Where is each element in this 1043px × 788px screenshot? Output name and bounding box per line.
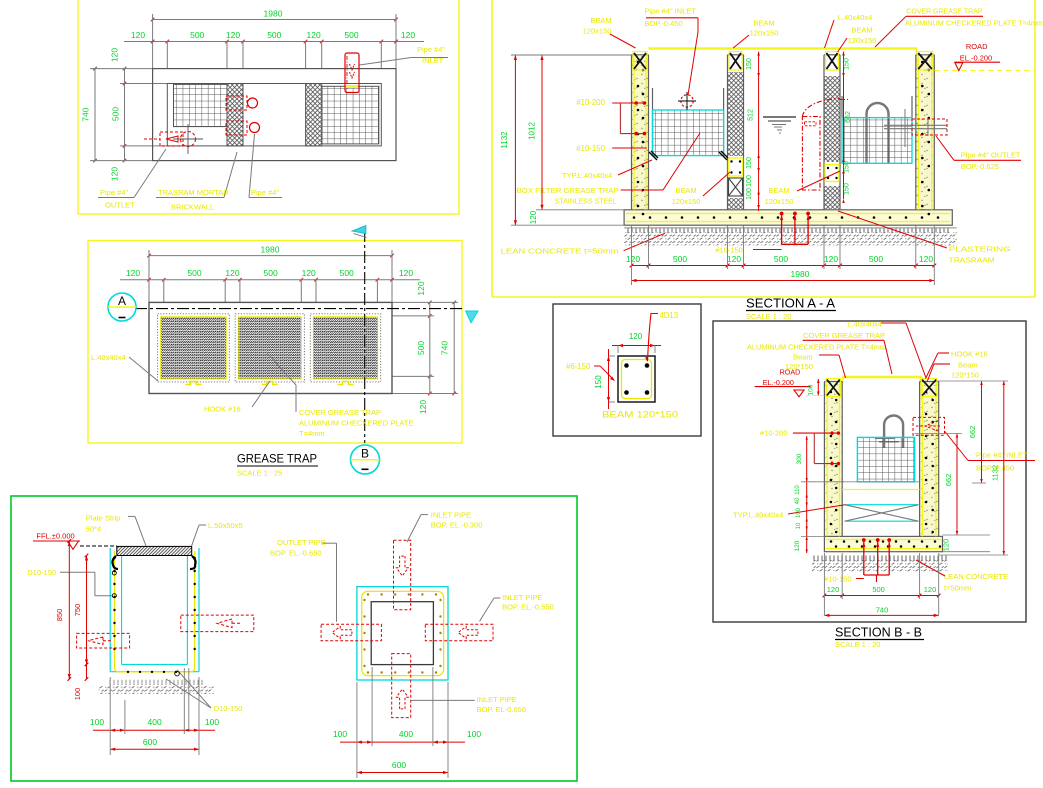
svg-text:#10-150: #10-150 (824, 575, 852, 584)
pit plan pipe top (394, 540, 411, 610)
svg-text:LEAN CONCRETE t=50mm: LEAN CONCRETE t=50mm (501, 247, 619, 256)
dim 1012 (A-A) (541, 55, 543, 210)
svg-text:Pipe #4": Pipe #4" (417, 45, 445, 54)
svg-text:INLET PIPE: INLET PIPE (431, 511, 471, 520)
cover panel 1 hatch (161, 317, 227, 379)
svg-text:120: 120 (942, 539, 951, 552)
svg-text:BEAM: BEAM (590, 16, 611, 25)
pit plan pipe bottom (392, 654, 411, 718)
svg-text:150: 150 (844, 183, 851, 195)
svg-text:120x150: 120x150 (765, 197, 794, 206)
extension lines (grease trap dim row) (163, 280, 165, 303)
floor slab (A-A) (624, 210, 952, 225)
cover panel 3 hook mark (338, 382, 354, 385)
dim 120/500/120 right (grease trap) (429, 302, 431, 316)
svg-text:10: 10 (796, 522, 802, 529)
svg-text:ALUMINUM CHECKERED PLATE T=4mm: ALUMINUM CHECKERED PLATE T=4mm (747, 343, 886, 352)
svg-text:1132: 1132 (500, 131, 509, 149)
svg-text:SCALE 1 : 20: SCALE 1 : 20 (835, 640, 880, 649)
box filter grid left (A-A) (653, 110, 724, 156)
dim row bottom (A-A) (632, 265, 935, 267)
svg-text:100: 100 (73, 688, 82, 701)
cover plate yellow (A-A) (649, 47, 917, 50)
svg-text:TRASRAM MORTAR: TRASRAM MORTAR (158, 188, 229, 197)
svg-text:110: 110 (795, 485, 801, 495)
svg-text:OUTLET PIPE: OUTLET PIPE (277, 538, 326, 547)
svg-text:Pipe #4" INLET: Pipe #4" INLET (644, 7, 696, 16)
section line A-A dashdot (135, 308, 462, 310)
dowel bars red (A-A) (781, 214, 783, 245)
dim row 120-500-120-500-120-500-120 (plan-1) (124, 41, 424, 43)
outlet pipe (A-A) (884, 124, 947, 126)
label Pipe#4 center (plan-1) (249, 197, 282, 199)
right exterior wall (A-A) (915, 55, 917, 210)
frame detail green border (11, 496, 577, 781)
cover panel 2 hook mark (262, 382, 278, 385)
svg-text:BOP. EL.-0.550: BOP. EL.-0.550 (502, 603, 554, 612)
dim 600 (pit plan) (357, 772, 448, 774)
floor slab (B-B) (824, 536, 942, 551)
label TRASRAM MORTAR BRICKWALL (plan-1) (156, 197, 224, 199)
dim row 120-500-120 (B-B) (824, 595, 938, 597)
svg-text:1980: 1980 (261, 245, 280, 255)
svg-text:#10-200: #10-200 (760, 429, 788, 438)
svg-text:COVER GREASE TRAP: COVER GREASE TRAP (803, 331, 885, 340)
svg-text:750: 750 (73, 604, 82, 617)
svg-text:120: 120 (399, 268, 413, 278)
beam outline (618, 356, 655, 402)
svg-text:120: 120 (924, 585, 937, 594)
label Pipe#4 INLET (plan-1) (360, 58, 412, 66)
dim chain left stacked (B-B) (806, 436, 808, 553)
svg-text:ALUMINUM CHECKERED PLATE T=4mm: ALUMINUM CHECKERED PLATE T=4mm (905, 19, 1043, 28)
box filter grid (B-B) (857, 437, 914, 481)
cover plate yellow (B-B) (842, 376, 922, 378)
cover panel 2 hatch (238, 317, 301, 379)
svg-text:120*150: 120*150 (785, 362, 813, 371)
pit top plate hatched (117, 546, 192, 555)
svg-text:#10-150: #10-150 (576, 144, 605, 153)
svg-text:500: 500 (340, 268, 354, 278)
dim 740 (B-B) (824, 614, 938, 616)
dim 100-400-100 (pit) (93, 729, 215, 731)
pit plan pipe left (321, 624, 381, 641)
svg-text:300: 300 (796, 453, 803, 464)
svg-text:EL.-0.200: EL.-0.200 (960, 54, 993, 63)
svg-text:740: 740 (876, 606, 889, 615)
frame plan-1 yellow border (78, 0, 459, 214)
svg-text:500: 500 (872, 585, 885, 594)
extension lines left (A-A) (511, 54, 632, 56)
svg-text:T=4mm: T=4mm (299, 429, 325, 438)
svg-text:40: 40 (795, 497, 801, 504)
dim 100 road (B-B) (817, 379, 819, 396)
svg-text:120: 120 (416, 281, 426, 295)
pit anchor hook left (112, 556, 118, 569)
interior wall 2 hatch (A-A) (824, 76, 840, 162)
pit plan inner square (371, 602, 433, 665)
frame beam detail (553, 304, 701, 436)
svg-text:BOP. EL.-0.300: BOP. EL.-0.300 (431, 520, 483, 529)
svg-text:500: 500 (416, 341, 426, 355)
cover panel 1 dotted frame (158, 314, 230, 382)
svg-text:#6-150: #6-150 (566, 362, 591, 371)
pit anchor hook right (190, 556, 196, 569)
pipe sleeve lower (plan-1) (226, 121, 247, 135)
frame section A-A yellow border (491, 0, 493, 297)
dim chain interior wall1 (A-A) (758, 52, 760, 211)
pit plan cyan square (357, 587, 448, 680)
svg-text:BOP. EL-0.650: BOP. EL-0.650 (477, 705, 526, 714)
svg-text:SECTION A - A: SECTION A - A (746, 297, 836, 311)
svg-text:t=50mm: t=50mm (944, 584, 971, 593)
svg-text:600: 600 (143, 737, 157, 747)
svg-text:B: B (361, 447, 369, 461)
svg-text:Beam: Beam (958, 361, 978, 370)
svg-text:150: 150 (594, 375, 603, 389)
extension lines right (B-B) (939, 380, 1008, 382)
svg-text:FFL.±0.000: FFL.±0.000 (36, 531, 74, 540)
svg-text:TYP.L.40x40x4: TYP.L.40x40x4 (733, 511, 783, 520)
top beam X marks (B-B) (826, 379, 841, 397)
svg-text:HOOK #16: HOOK #16 (951, 350, 988, 359)
tank inner wall (plan-1) (167, 84, 381, 146)
pit plan rebar dots (367, 593, 369, 595)
svg-text:150: 150 (746, 58, 753, 70)
extension lines (grease trap right) (392, 301, 458, 303)
siphon elbow pipe (A-A) (802, 117, 820, 191)
pit inner cyan cavity (121, 556, 123, 665)
svg-text:500: 500 (187, 268, 201, 278)
vent hook pipe (A-A) (867, 103, 889, 163)
pit pipe right red (181, 615, 254, 632)
wire mesh chamber 1 (plan-1) (174, 84, 228, 126)
svg-text:400: 400 (148, 717, 162, 727)
vent hook pipe (B-B) (884, 416, 903, 449)
svg-text:120: 120 (418, 400, 428, 414)
cover panel 3 dotted frame (310, 314, 380, 382)
pit pipe left red (77, 633, 130, 648)
interior wall 1 (A-A) (727, 55, 729, 210)
water level symbol (A-A) (763, 116, 796, 118)
svg-text:D10-150: D10-150 (27, 568, 56, 577)
svg-text:662: 662 (845, 111, 852, 123)
svg-text:600: 600 (392, 760, 406, 770)
extension lines (plan-1 top) (152, 14, 154, 69)
svg-text:BOX FILTER GREASE TRAP: BOX FILTER GREASE TRAP (517, 186, 619, 195)
svg-text:500: 500 (264, 268, 278, 278)
svg-text:850: 850 (55, 609, 64, 622)
svg-text:A: A (118, 294, 126, 308)
pipe sleeve upper (plan-1) (226, 96, 247, 110)
left exterior wall (A-A) (631, 55, 633, 210)
section flag right (466, 311, 478, 323)
svg-text:740: 740 (440, 341, 450, 355)
svg-text:120*150: 120*150 (951, 371, 979, 380)
pit rebar yellow (115, 551, 195, 672)
svg-text:BOP.-0.450: BOP.-0.450 (644, 19, 682, 28)
svg-text:1980: 1980 (791, 269, 810, 279)
svg-text:120: 120 (307, 30, 321, 40)
svg-text:SCALE 1 : 20: SCALE 1 : 20 (746, 312, 791, 321)
svg-text:150: 150 (746, 157, 753, 169)
dim row 120-500-... (grease trap) (120, 279, 420, 281)
svg-text:1012: 1012 (528, 122, 537, 140)
section flag top (352, 226, 366, 234)
svg-text:ROAD: ROAD (966, 42, 988, 51)
dim 662 outer (B-B) (981, 381, 983, 483)
beam rebar dots (624, 363, 629, 368)
right wall (B-B) (919, 382, 921, 537)
extension lines (plan-1 left) (90, 68, 153, 70)
svg-text:BEAM 120*150: BEAM 120*150 (602, 410, 678, 420)
svg-text:120: 120 (110, 167, 120, 181)
dim 1132 (B-B) (1003, 381, 1005, 555)
svg-text:Pipe #4" OUTLET: Pipe #4" OUTLET (961, 151, 1021, 160)
top beam X mark 3 (A-A) (826, 52, 839, 71)
svg-text:BEAM: BEAM (768, 186, 789, 195)
svg-text:120: 120 (529, 210, 538, 224)
svg-text:120: 120 (919, 254, 933, 264)
inlet pipe dashed box (B-B) (913, 417, 945, 435)
dim 1980 (plan-1) (153, 19, 396, 21)
tank outline (grease trap) (149, 302, 392, 393)
svg-text:Beam: Beam (793, 353, 813, 362)
extension lines (plan-1 dim row) (166, 42, 168, 69)
wall fill speckle (B-B) (824, 382, 842, 537)
svg-text:100: 100 (746, 188, 753, 200)
extension lines (pit bottom) (109, 677, 111, 755)
svg-text:SECTION B - B: SECTION B - B (835, 626, 922, 640)
dim 600 (pit) (110, 748, 199, 750)
svg-text:120: 120 (827, 585, 840, 594)
svg-text:EL.-0.200: EL.-0.200 (763, 378, 794, 387)
section marker A circle (108, 293, 136, 321)
box filter grid right (A-A) (842, 118, 912, 164)
svg-text:PLASTERING: PLASTERING (949, 245, 1011, 254)
dowel bars red (B-B) (863, 540, 865, 575)
top beam X mark 1 (A-A) (633, 52, 647, 71)
interior wall 2 (A-A) (823, 55, 825, 210)
angle support line (B-B) (842, 489, 919, 491)
svg-text:120: 120 (110, 48, 120, 62)
svg-text:Pipe #4" INLET: Pipe #4" INLET (976, 451, 1028, 460)
dim 740 left (plan-1) (94, 69, 96, 161)
svg-text:100: 100 (333, 729, 347, 739)
extension lines bottom (A-A) (631, 225, 633, 285)
svg-text:4D13: 4D13 (659, 311, 678, 320)
svg-text:TYP.L.40x40x4: TYP.L.40x40x4 (562, 171, 612, 180)
svg-text:120: 120 (626, 254, 640, 264)
svg-text:50*4: 50*4 (86, 525, 101, 534)
svg-text:120x150: 120x150 (583, 27, 612, 36)
svg-text:500: 500 (267, 30, 281, 40)
svg-text:Plate Strip: Plate Strip (86, 514, 121, 523)
svg-text:120: 120 (824, 254, 838, 264)
tank outer wall (plan-1) (153, 69, 396, 161)
pit rebar dots (113, 557, 115, 559)
extension lines (grease trap top) (148, 250, 150, 302)
svg-text:Pipe #4": Pipe #4" (100, 188, 128, 197)
svg-text:1980: 1980 (264, 9, 283, 19)
svg-text:TRASRAAM: TRASRAAM (949, 256, 995, 265)
dim 1132 (A-A) (514, 55, 516, 225)
svg-text:BEAM: BEAM (753, 19, 774, 28)
pipe inlet circle (A-A) (681, 95, 693, 107)
svg-text:Pipe #4": Pipe #4" (251, 188, 279, 197)
dim 100-400-100 (pit plan) (340, 741, 465, 743)
extension lines (pit plan bottom) (356, 682, 358, 778)
svg-text:400: 400 (399, 729, 413, 739)
svg-text:500: 500 (673, 254, 687, 264)
interior wall 1 hatch (A-A) (728, 72, 744, 156)
svg-text:662: 662 (968, 426, 977, 439)
box filter posts left (A-A) (652, 88, 654, 156)
dim 740 right (grease trap) (453, 302, 455, 393)
svg-text:COVER GREASE TRAP: COVER GREASE TRAP (299, 408, 381, 417)
svg-text:500: 500 (869, 254, 883, 264)
dim 1980 (grease trap) (149, 255, 392, 257)
top beam X mark 2 (A-A) (729, 52, 742, 71)
svg-text:120: 120 (629, 332, 643, 341)
svg-text:120x150: 120x150 (750, 29, 779, 38)
frame grease-trap yellow border (88, 241, 462, 444)
cover panel 2 dotted frame (235, 314, 304, 382)
section line B-B dashdot (364, 230, 366, 443)
svg-text:COVER GREASE TRAP: COVER GREASE TRAP (906, 7, 982, 16)
svg-text:SCALE 1 : 25: SCALE 1 : 25 (237, 469, 282, 478)
pit ground soil hatch (99, 685, 214, 694)
svg-text:#10-200: #10-200 (576, 98, 605, 107)
svg-text:120: 120 (226, 30, 240, 40)
cross brace (B-B) (845, 504, 919, 506)
dim 750 (pit) (86, 556, 88, 665)
svg-text:120: 120 (401, 30, 415, 40)
svg-text:120: 120 (126, 268, 140, 278)
svg-text:BEAM: BEAM (851, 26, 872, 35)
svg-text:120: 120 (794, 540, 801, 551)
svg-text:BOP.-0.625: BOP.-0.625 (961, 162, 999, 171)
svg-text:150: 150 (844, 161, 851, 173)
cover panel 1 hook mark (185, 382, 201, 385)
svg-text:L.50x50x5: L.50x50x5 (208, 521, 243, 530)
corner angle marks left filter (A-A) (649, 151, 658, 160)
cover panel 3 hatch (313, 317, 377, 379)
svg-text:512: 512 (748, 109, 755, 121)
svg-text:100: 100 (746, 175, 753, 187)
dim chain interior wall2 (A-A) (843, 52, 845, 199)
pit plan pipe right (425, 624, 493, 641)
svg-text:100: 100 (467, 729, 481, 739)
wire mesh chamber 3 (plan-1) (322, 86, 379, 144)
svg-text:500: 500 (111, 107, 121, 121)
ground hatch (B-B) (813, 556, 815, 561)
svg-text:120: 120 (131, 30, 145, 40)
box filter posts right (A-A) (841, 96, 843, 118)
top beam X mark 4 (A-A) (917, 52, 933, 71)
svg-text:ALUMINUM CHECKERED PLATE: ALUMINUM CHECKERED PLATE (299, 419, 413, 428)
svg-text:500: 500 (774, 254, 788, 264)
section marker B circle (351, 445, 380, 474)
pit plan yellow stirrup (362, 591, 444, 675)
label Pipe#4 OUTLET (plan-1) (98, 197, 134, 199)
svg-text:BOP. EL.-0.650: BOP. EL.-0.650 (270, 549, 322, 558)
interior wall 1 hatched (plan-1) (227, 84, 243, 146)
interior wall 2 hatched (plan-1) (306, 84, 322, 146)
svg-text:INLET PIPE: INLET PIPE (502, 593, 542, 602)
svg-text:100: 100 (796, 507, 802, 518)
dim 100 (pit) (86, 664, 88, 679)
svg-text:120x150: 120x150 (848, 36, 877, 45)
dim 1980 (A-A) (632, 280, 935, 282)
svg-text:STAINLESS STEEL: STAINLESS STEEL (555, 197, 617, 206)
dim 850 (pit) (68, 541, 70, 679)
pipe #4 outlet symbol (plan-1) (160, 132, 183, 146)
svg-text:L.40x40x4: L.40x40x4 (838, 13, 873, 22)
svg-text:BEAM: BEAM (675, 186, 696, 195)
svg-text:BRICKWALL: BRICKWALL (171, 203, 214, 212)
extension lines left (B-B) (801, 481, 844, 483)
wall fill speckle (A-A) (632, 55, 649, 210)
svg-text:INLET: INLET (422, 56, 444, 65)
extension lines bottom (B-B) (823, 553, 825, 615)
svg-text:L.40x40x4: L.40x40x4 (91, 353, 126, 362)
svg-text:D10-150: D10-150 (214, 704, 243, 713)
svg-text:GREASE TRAP: GREASE TRAP (237, 452, 317, 466)
left wall (B-B) (823, 382, 825, 537)
dim 662 inner (B-B) (956, 434, 958, 536)
svg-text:150: 150 (844, 58, 851, 70)
svg-text:500: 500 (190, 30, 204, 40)
pit ground bearing ticks (109, 680, 111, 685)
svg-text:L.40x40x4: L.40x40x4 (847, 320, 882, 329)
dim 120-500-120 left (plan-1) (124, 69, 126, 84)
svg-text:740: 740 (81, 107, 91, 121)
svg-text:500: 500 (344, 30, 358, 40)
svg-text:100: 100 (90, 717, 104, 727)
pit outer cyan walls (109, 548, 111, 672)
lean concrete hatch band (A-A) (627, 228, 629, 233)
svg-text:1132: 1132 (991, 465, 1000, 481)
svg-text:662: 662 (944, 474, 953, 487)
svg-text:100: 100 (205, 717, 219, 727)
pipe #4 inlet symbol (plan-1) (345, 53, 359, 93)
beam stirrup yellow (622, 360, 652, 399)
frame section B-B (713, 321, 1026, 622)
svg-text:OUTLET: OUTLET (105, 201, 135, 210)
svg-text:LEAN CONCRETE: LEAN CONCRETE (944, 572, 1008, 581)
svg-text:HOOK #16: HOOK #16 (204, 405, 241, 414)
svg-text:120: 120 (302, 268, 316, 278)
svg-text:120: 120 (727, 254, 741, 264)
svg-text:120: 120 (225, 268, 239, 278)
svg-text:INLET PIPE: INLET PIPE (477, 695, 517, 704)
svg-text:100: 100 (808, 384, 815, 395)
svg-text:120x150: 120x150 (672, 197, 701, 206)
